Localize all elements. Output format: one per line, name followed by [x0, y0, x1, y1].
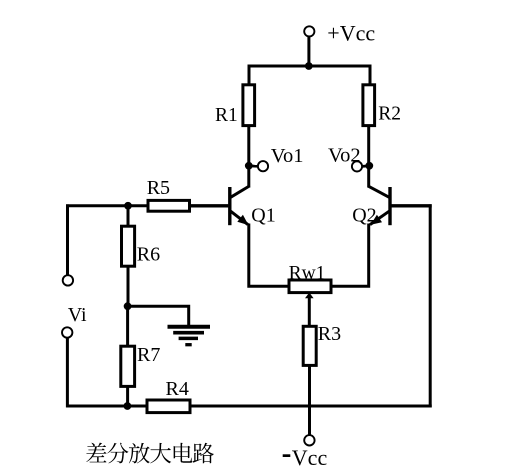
wire left rail top [66, 204, 69, 275]
transistor Q1 [190, 186, 250, 225]
resistor R4 [147, 400, 190, 413]
svg-text:+Vcc: +Vcc [327, 21, 375, 46]
transistor Q2 [368, 186, 432, 225]
terminal +Vcc [304, 26, 314, 36]
svg-text:R7: R7 [137, 344, 160, 366]
terminal Vo2 [352, 161, 362, 171]
resistor R2 [363, 85, 375, 126]
wire R2 bottom to Q2 collector [367, 126, 370, 188]
terminal -Vcc [304, 435, 314, 445]
wiper arrow of Rw1 [305, 293, 314, 299]
wire +Vcc stub [307, 37, 310, 66]
resistor R1 [243, 85, 255, 126]
resistor R7 [121, 346, 135, 386]
junction dot R5/R6 node [124, 202, 132, 210]
node Vo2 junction dot [365, 162, 373, 170]
wire bottom rail right [190, 405, 432, 408]
wire Q1 emitter to Rw1 [249, 224, 289, 287]
potentiometer Rw1 [289, 280, 331, 293]
label caption 差分放大电路 [86, 443, 214, 464]
svg-text:R1: R1 [215, 105, 238, 126]
wire top rail +Vcc [249, 66, 370, 85]
wire R6 to ground node [127, 266, 130, 307]
svg-text:R6: R6 [137, 244, 160, 266]
resistor R3 [303, 326, 316, 365]
wire bottom rail left [66, 405, 147, 408]
node Vo1 junction dot [245, 162, 253, 170]
wire R5 node to R6 [127, 206, 130, 226]
junction dot ground node [124, 302, 132, 310]
wire Q2 emitter to Rw1 [331, 224, 369, 287]
svg-text:Vo2: Vo2 [328, 145, 361, 167]
terminal Vi upper [63, 275, 73, 285]
svg-text:Vo1: Vo1 [271, 145, 304, 167]
wire Vi top to R5 [66, 204, 148, 207]
wire R1 bottom to Q1 collector [247, 126, 250, 188]
wire Vo1 stub [250, 165, 258, 168]
wire Rw1 wiper to R3 [308, 298, 311, 326]
terminal Vi lower [62, 327, 72, 337]
junction dot R7 bottom node [124, 402, 132, 410]
svg-text:R5: R5 [147, 177, 170, 199]
junction dot at +Vcc rail [305, 62, 313, 70]
resistor R5 [148, 200, 190, 211]
svg-text:R2: R2 [378, 104, 401, 125]
terminal Vo1 [258, 161, 268, 171]
wire ground branch [128, 306, 189, 326]
svg-text:Rw1: Rw1 [289, 263, 326, 284]
svg-text:Q2: Q2 [352, 205, 376, 227]
svg-text:Vi: Vi [68, 304, 87, 326]
wire R7 top [126, 306, 129, 346]
svg-text:Q1: Q1 [251, 204, 275, 226]
resistor R6 [122, 226, 135, 266]
wire R3 to -Vcc [308, 365, 311, 435]
wire R7 bottom [126, 386, 129, 406]
wire left rail bottom [66, 338, 69, 408]
svg-text:R4: R4 [166, 378, 189, 400]
wire right rail [429, 204, 432, 407]
svg-text:R3: R3 [318, 323, 341, 345]
svg-text:Vcc: Vcc [292, 445, 328, 470]
label -Vcc [283, 445, 328, 470]
ground [168, 327, 211, 345]
wire Vo2 stub [362, 165, 368, 168]
